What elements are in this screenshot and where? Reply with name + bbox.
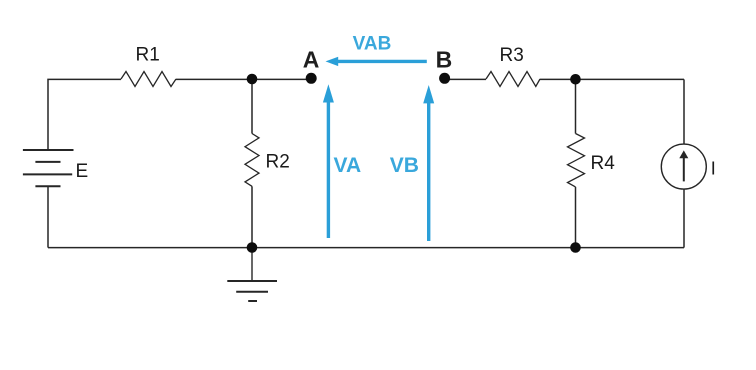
node A: [306, 73, 317, 84]
svg-text:R2: R2: [266, 152, 290, 173]
wire right side down to current source: [683, 79, 685, 144]
svg-text:VB: VB: [390, 154, 419, 177]
svg-text:R3: R3: [500, 45, 524, 66]
svg-text:E: E: [76, 161, 89, 182]
arrow VB: [423, 85, 434, 241]
wire R2 bottom to ground node: [251, 186, 253, 247]
wire R1 to node junction and terminal A: [176, 78, 307, 80]
svg-text:VAB: VAB: [353, 34, 392, 55]
wire bottom rail: [48, 247, 684, 249]
svg-text:A: A: [303, 47, 320, 73]
node junction (ground): [247, 242, 258, 253]
wire node junction down to R2: [251, 79, 253, 133]
svg-text:R1: R1: [136, 45, 160, 66]
node junction (R3/R4): [570, 74, 581, 85]
svg-text:I: I: [711, 159, 716, 179]
svg-text:B: B: [436, 47, 453, 73]
svg-text:R4: R4: [591, 153, 616, 174]
node junction (R1/R2): [247, 74, 258, 85]
node junction (R4 bottom): [570, 242, 581, 253]
wire battery bottom to bottom-left corner: [47, 186, 49, 247]
wire terminal B to R3: [448, 78, 486, 80]
resistor R4: [568, 134, 585, 187]
resistor R2: [245, 134, 259, 187]
current source U1: [661, 144, 706, 189]
wire R3 to top-right corner: [540, 78, 684, 80]
wire top-left (battery top to R1): [48, 79, 121, 150]
ground: [227, 248, 277, 301]
svg-text:VA: VA: [334, 154, 362, 177]
wire R4 bottom to bottom rail: [575, 187, 577, 248]
resistor R1: [121, 72, 176, 87]
resistor R3: [486, 72, 540, 87]
wire node to R4 top: [575, 79, 577, 133]
arrow VAB: [326, 57, 427, 66]
wire current source to bottom-right corner: [683, 189, 685, 248]
battery E: [23, 150, 74, 186]
arrow VA: [323, 84, 334, 238]
node B: [439, 73, 450, 84]
